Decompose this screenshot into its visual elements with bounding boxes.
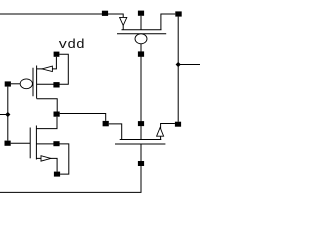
transistor M4 source arrow [157, 128, 164, 137]
wire M1 drain lead [37, 99, 58, 112]
wire M1 bulk loop [37, 54, 69, 84]
transistor M4 gate bar [115, 143, 165, 145]
pin vdd node [54, 52, 60, 57]
wire top rail (vdd net) [0, 14, 123, 17]
pin node top right [175, 11, 181, 16]
pin M1 gate node [5, 81, 11, 86]
pin M4 bulk [138, 121, 144, 126]
wire M1 source lead [37, 57, 57, 69]
wire branch to left edge [0, 114, 8, 116]
transistor M2 channel bar [35, 126, 37, 160]
transistor M2 (NMOS, left) gate bar [29, 128, 31, 159]
wire M2 drain lead [36, 117, 57, 129]
transistor M1 source arrow [42, 66, 53, 72]
pin on M4 gate wire [138, 161, 144, 166]
transistor M1 channel bar [36, 66, 38, 99]
junction on right rail [176, 62, 181, 67]
pin M2 gate node [5, 141, 11, 146]
wire M2 bulk loop [36, 144, 68, 174]
transistor M4 (NMOS, bottom) channel bar [120, 139, 162, 141]
svg-text:vdd: vdd [58, 37, 84, 52]
pin inverter output node [54, 112, 60, 117]
transistor M3 (PMOS, top) source arrow [120, 17, 127, 25]
transistor M3 gate bubble [135, 34, 147, 44]
wire output node to M4 drain [60, 114, 106, 121]
pin on top rail [102, 11, 108, 16]
wire M3 source stub [122, 25, 124, 29]
pin on output wire [103, 121, 109, 126]
wire branch to right edge [178, 64, 200, 66]
wire M4 gate to bottom rail [0, 144, 141, 192]
transistor M2 source arrow [41, 156, 51, 161]
transistor M3 gate bar [117, 33, 166, 35]
wire M2 gate lead [11, 142, 31, 144]
wire to M4 drain lead [109, 124, 122, 140]
wire left rail [7, 87, 9, 141]
transistor M1 (PMOS, upper left) gate bar [32, 68, 34, 97]
transistor M3 channel bar [122, 29, 162, 31]
pin on M3 gate wire [138, 51, 144, 56]
wire right rail [177, 17, 179, 122]
wire M3 drain lead [161, 14, 175, 30]
pin M1 bulk [53, 82, 59, 87]
wire M2 source lead [36, 158, 57, 171]
pin M3 bulk [138, 11, 144, 16]
transistor M1 gate bubble [20, 79, 32, 89]
pin M2 source node [54, 172, 60, 177]
pin M4 source node [175, 122, 181, 127]
junction on left rail [5, 112, 10, 117]
pin M2 bulk [53, 141, 59, 146]
wire M1 gate lead [11, 83, 20, 85]
wire M3 gate down to M4 bulk [140, 44, 142, 140]
wire M4 source lead [161, 124, 175, 140]
wire M3 bulk lead [140, 16, 142, 30]
